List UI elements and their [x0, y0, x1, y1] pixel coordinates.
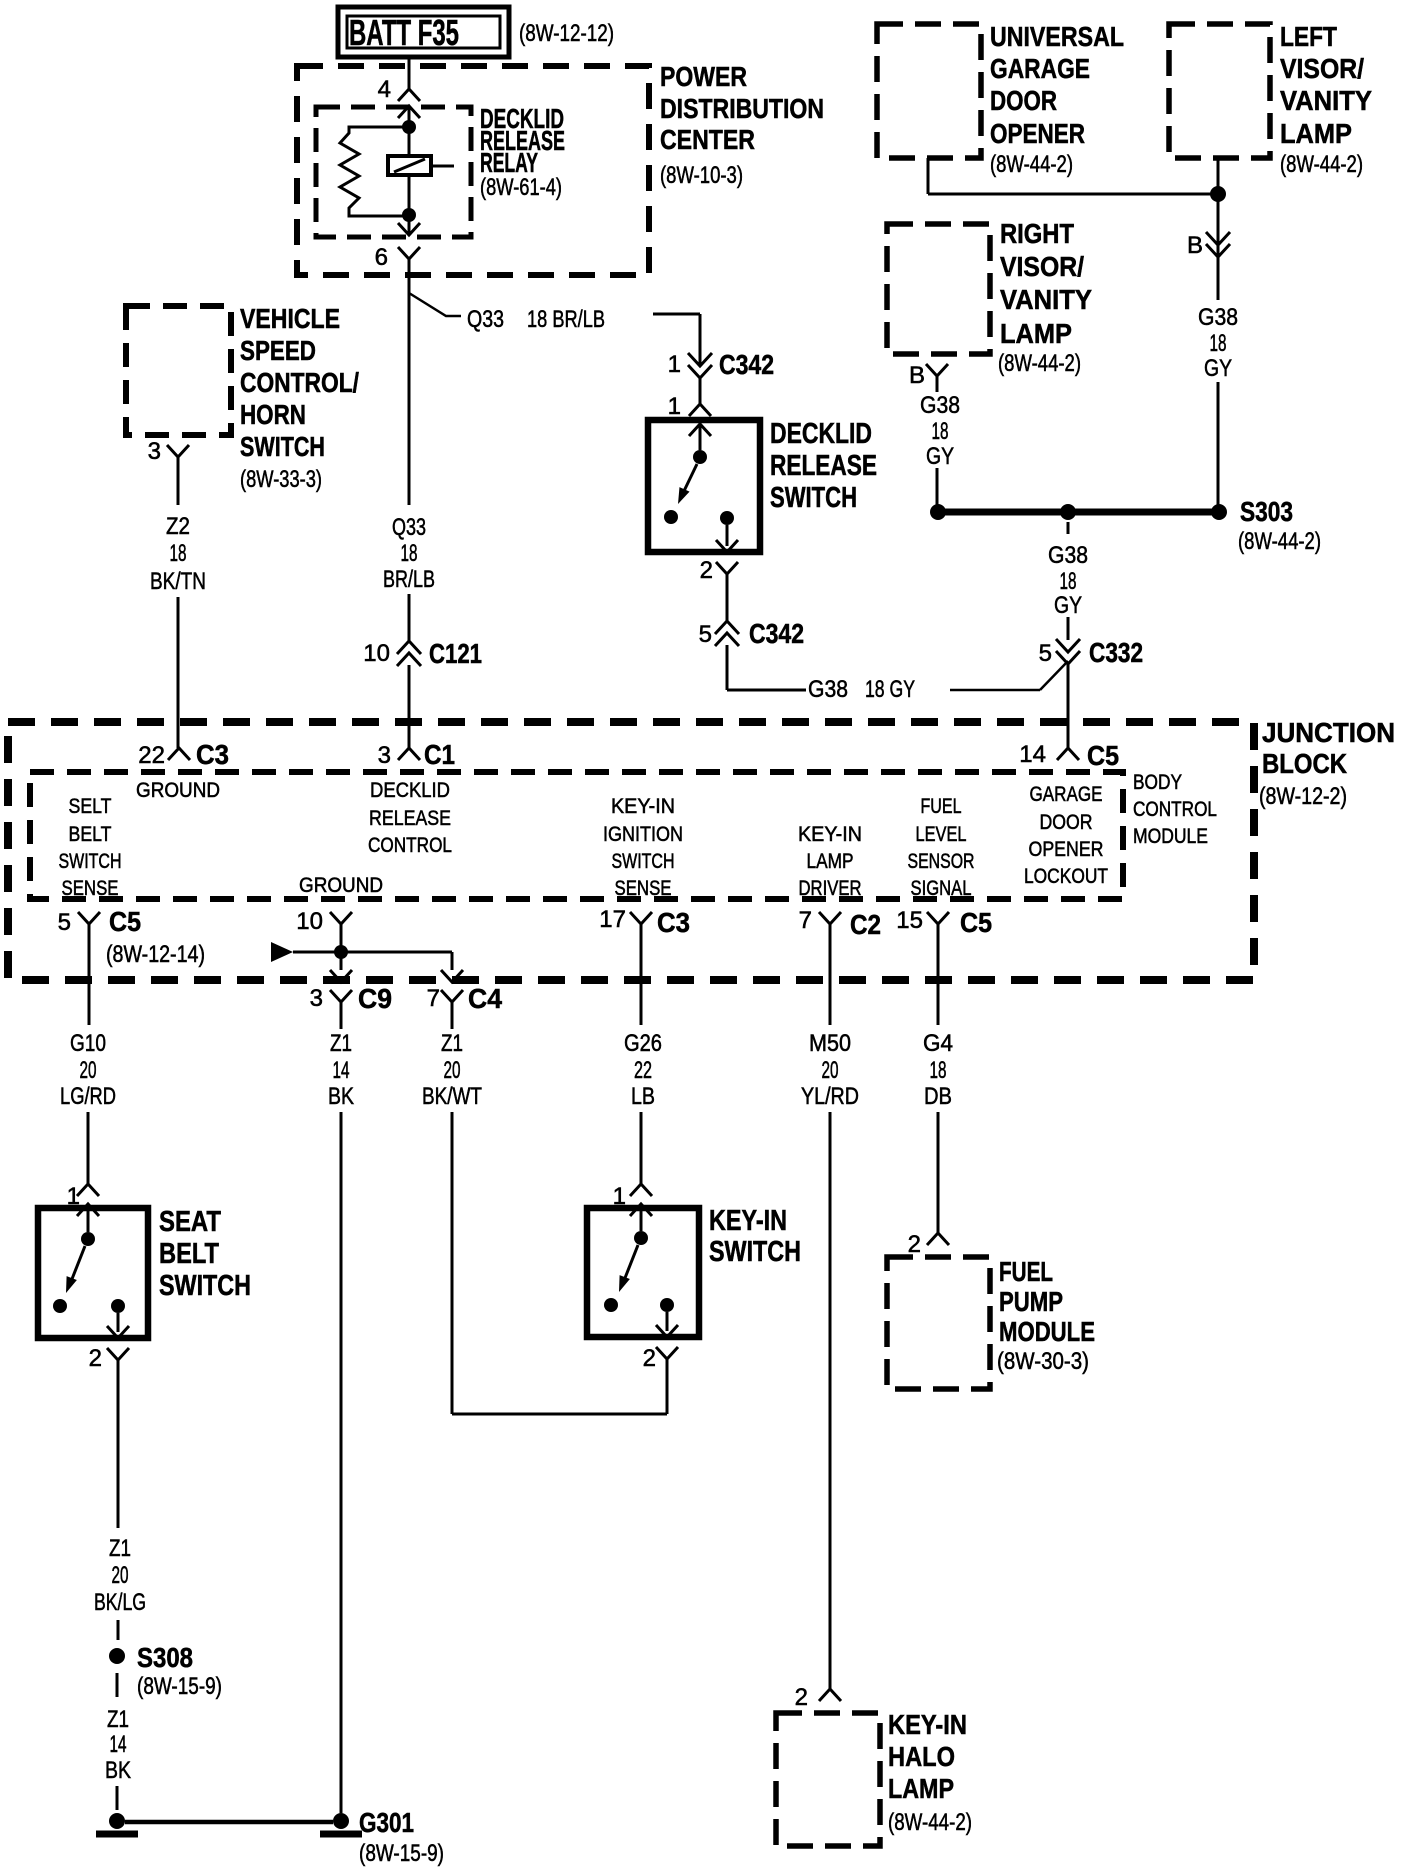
svg-text:C5: C5	[1087, 740, 1119, 771]
wire Q33 branch to C342	[653, 313, 700, 316]
svg-text:(8W-15-9): (8W-15-9)	[137, 1673, 222, 1700]
wire G10 to seat belt switch	[87, 1112, 90, 1184]
svg-text:BR/LB: BR/LB	[383, 566, 435, 593]
wire decklid pin 2 to C342-5	[726, 574, 729, 621]
wire G38 label to C332	[950, 689, 1040, 692]
wire Z2 to junction block pin 22	[177, 457, 180, 505]
svg-text:(8W-15-9): (8W-15-9)	[359, 1840, 444, 1867]
svg-text:VANITY: VANITY	[1000, 284, 1092, 315]
svg-text:SENSE: SENSE	[615, 877, 672, 900]
wire splice to C9	[340, 952, 343, 970]
svg-text:LAMP: LAMP	[888, 1773, 954, 1804]
svg-text:G10: G10	[70, 1030, 106, 1057]
svg-text:5: 5	[699, 621, 712, 648]
svg-text:C3: C3	[657, 907, 690, 938]
pin 3 connector vehicle speed control	[167, 445, 189, 457]
wire pin 10 to ground splice	[340, 924, 343, 948]
svg-text:(8W-30-3): (8W-30-3)	[997, 1348, 1089, 1375]
svg-text:MODULE: MODULE	[999, 1316, 1095, 1347]
svg-text:20: 20	[444, 1057, 461, 1084]
svg-text:G38: G38	[808, 676, 848, 703]
node ground splice	[334, 945, 348, 959]
svg-text:(8W-44-2): (8W-44-2)	[998, 350, 1081, 377]
ground G301 right node	[333, 1813, 349, 1829]
wire Z1 20 BK/WT to key-in switch pin 2	[451, 1112, 454, 1414]
svg-text:LAMP: LAMP	[807, 850, 854, 873]
wire pin 15 down	[937, 924, 940, 1025]
svg-text:SENSE: SENSE	[62, 877, 119, 900]
svg-text:G4: G4	[923, 1030, 953, 1057]
svg-text:SENSOR: SENSOR	[908, 850, 975, 873]
power distribution center box	[297, 66, 649, 275]
svg-text:SEAT: SEAT	[159, 1206, 221, 1238]
node S303 left	[930, 504, 946, 520]
svg-text:C4: C4	[468, 983, 502, 1014]
svg-text:2: 2	[700, 557, 713, 584]
connector C121	[397, 641, 421, 654]
key-in switch box	[587, 1208, 699, 1337]
svg-text:LG/RD: LG/RD	[60, 1083, 116, 1110]
resistor (relay suppression)	[340, 127, 404, 216]
pin 3 connector C1	[398, 748, 420, 760]
svg-text:2: 2	[908, 1231, 921, 1258]
svg-text:3: 3	[148, 438, 161, 465]
wire G26 to key-in switch	[640, 1112, 643, 1184]
pin 17 connector C3	[630, 912, 652, 924]
svg-text:HALO: HALO	[888, 1741, 955, 1772]
svg-text:(8W-61-4): (8W-61-4)	[480, 174, 562, 201]
svg-text:VANITY: VANITY	[1280, 85, 1372, 116]
wire Z1 14 BK junction block to ground	[340, 1112, 343, 1813]
node relay bottom junction	[402, 208, 416, 222]
svg-text:DOOR: DOOR	[990, 85, 1057, 116]
wire ground bus	[125, 1820, 333, 1825]
svg-text:Z1: Z1	[441, 1030, 463, 1057]
wire C121 to junction block pin 3	[408, 665, 411, 748]
node relay top junction	[402, 120, 416, 134]
svg-text:JUNCTION: JUNCTION	[1262, 717, 1395, 748]
svg-text:2: 2	[795, 1684, 808, 1711]
svg-text:BK: BK	[105, 1757, 131, 1784]
svg-text:BATT F35: BATT F35	[349, 12, 459, 53]
svg-text:Q33: Q33	[392, 514, 426, 541]
wire pin 5 to G10 label	[88, 924, 91, 1025]
right visor/vanity lamp box	[887, 224, 990, 354]
wire C332 to junction block pin 14	[1067, 664, 1070, 748]
wire Z1 seat belt to S308	[117, 1360, 120, 1378]
svg-text:KEY-IN: KEY-IN	[709, 1205, 787, 1237]
svg-text:GARAGE: GARAGE	[1030, 783, 1103, 806]
splice S303 bus	[938, 509, 1219, 516]
node decklid switch common	[693, 450, 707, 464]
svg-text:C3: C3	[196, 739, 229, 770]
pin B connector right visor	[926, 364, 948, 376]
svg-text:22: 22	[634, 1057, 652, 1084]
wire C342 to switch pin 1	[699, 378, 702, 404]
svg-text:C121: C121	[429, 638, 482, 669]
node key-in switch common	[634, 1231, 648, 1245]
pin 7 connector C4	[441, 990, 463, 1002]
svg-text:C5: C5	[960, 907, 992, 938]
connector C342 pin 5	[715, 621, 739, 634]
decklid switch pin 1 entry	[689, 424, 711, 436]
svg-text:DECKLID: DECKLID	[370, 779, 450, 802]
pin 14 connector C5	[1057, 748, 1079, 760]
wire Q33 pin 6 to C121	[408, 259, 411, 505]
svg-text:C2: C2	[850, 909, 881, 940]
wire BATT F35 to relay pin 4	[408, 57, 411, 89]
wire C342-5 to G38 label	[726, 645, 729, 690]
pin 6 connector	[398, 247, 420, 259]
svg-text:DRIVER: DRIVER	[799, 877, 862, 900]
svg-text:3: 3	[310, 985, 323, 1012]
svg-text:5: 5	[1039, 640, 1052, 667]
svg-text:MODULE: MODULE	[1133, 825, 1208, 848]
fuse BATT F35 box	[338, 7, 509, 57]
pin 5 connector C5	[78, 912, 100, 924]
svg-text:SWITCH: SWITCH	[709, 1236, 801, 1268]
connector C342 pin 1	[688, 353, 712, 366]
svg-text:BELT: BELT	[69, 823, 112, 846]
svg-text:BK/WT: BK/WT	[422, 1083, 482, 1110]
svg-text:RIGHT: RIGHT	[1000, 218, 1074, 249]
svg-text:17: 17	[599, 906, 626, 933]
decklid release relay box	[316, 107, 471, 237]
svg-text:C9: C9	[358, 983, 392, 1014]
wire M50 to key-in halo lamp	[829, 1112, 832, 1689]
svg-text:G26: G26	[624, 1030, 662, 1057]
svg-text:G38: G38	[1048, 542, 1088, 569]
svg-text:1: 1	[668, 393, 681, 420]
wire coil to bottom dot	[408, 175, 411, 212]
svg-text:(8W-44-2): (8W-44-2)	[888, 1809, 972, 1836]
svg-text:10: 10	[296, 908, 323, 935]
wire S308 down	[116, 1673, 119, 1697]
svg-text:(8W-12-2): (8W-12-2)	[1259, 783, 1347, 810]
svg-text:1: 1	[668, 351, 681, 378]
svg-text:GY: GY	[1054, 592, 1082, 619]
svg-text:KEY-IN: KEY-IN	[611, 795, 675, 818]
svg-text:C5: C5	[109, 906, 141, 937]
connector C332	[1056, 639, 1080, 652]
svg-text:RELEASE: RELEASE	[770, 450, 877, 482]
left visor/vanity lamp box	[1169, 24, 1270, 158]
key-in switch arm	[625, 1245, 638, 1278]
pin 2 connector seat belt switch	[107, 1348, 129, 1360]
wire key-in pin 2 down	[666, 1359, 669, 1414]
svg-text:PUMP: PUMP	[999, 1286, 1063, 1317]
svg-text:Z1: Z1	[107, 1706, 129, 1733]
svg-text:CONTROL: CONTROL	[368, 834, 452, 857]
svg-text:18: 18	[170, 540, 187, 567]
svg-text:Z1: Z1	[330, 1030, 352, 1057]
svg-text:B: B	[909, 362, 925, 389]
svg-text:RELEASE: RELEASE	[369, 807, 451, 830]
svg-text:14: 14	[333, 1057, 350, 1084]
svg-text:CONTROL/: CONTROL/	[240, 367, 359, 398]
svg-text:2: 2	[643, 1345, 656, 1372]
wire S303 to C332	[1067, 522, 1070, 534]
leader line Q33 wire label	[409, 293, 461, 316]
svg-text:(8W-44-2): (8W-44-2)	[990, 151, 1073, 178]
pin 22 connector C3	[168, 748, 190, 760]
ground G301 left node	[109, 1813, 125, 1829]
key-in switch pin 1 entry	[630, 1204, 652, 1216]
pin 15 connector C5	[927, 912, 949, 924]
svg-text:7: 7	[799, 907, 812, 934]
svg-text:BODY: BODY	[1133, 771, 1182, 794]
pin 10 connector	[330, 912, 352, 924]
svg-text:C342: C342	[719, 349, 774, 380]
key-in switch pin 2 exit	[666, 1312, 669, 1331]
seat belt switch pin 2 exit	[117, 1313, 120, 1332]
svg-text:18: 18	[1060, 568, 1077, 595]
svg-text:CENTER: CENTER	[660, 124, 755, 155]
svg-text:(8W-44-2): (8W-44-2)	[1238, 528, 1321, 555]
pin 7 connector C2	[819, 912, 841, 924]
node key-in contact left	[604, 1298, 618, 1312]
wire ground splice horizontal	[293, 951, 452, 954]
svg-text:20: 20	[80, 1057, 97, 1084]
wire pin 17 down	[640, 924, 643, 1025]
svg-text:YL/RD: YL/RD	[801, 1083, 859, 1110]
splice S308	[109, 1648, 125, 1664]
node decklid switch contact right	[720, 511, 734, 525]
svg-text:20: 20	[822, 1057, 839, 1084]
svg-text:SWITCH: SWITCH	[770, 482, 857, 514]
node S303 right	[1211, 504, 1227, 520]
svg-text:VEHICLE: VEHICLE	[240, 303, 340, 334]
svg-text:4: 4	[378, 76, 391, 103]
svg-text:G301: G301	[359, 1807, 414, 1838]
leader line G38 18 GY	[1040, 661, 1068, 690]
svg-text:SWITCH: SWITCH	[59, 850, 122, 873]
svg-text:GARAGE: GARAGE	[990, 53, 1090, 84]
pin 1 connector seat belt switch	[77, 1184, 99, 1196]
svg-text:7: 7	[427, 985, 440, 1012]
pin 3 connector C9	[330, 990, 352, 1002]
svg-text:CONTROL: CONTROL	[1133, 798, 1217, 821]
wire left visor lamp down	[1217, 158, 1220, 300]
svg-text:KEY-IN: KEY-IN	[888, 1709, 967, 1740]
wire right visor to S303	[936, 468, 939, 508]
svg-text:DB: DB	[924, 1083, 952, 1110]
svg-text:GY: GY	[926, 443, 954, 470]
svg-text:18 BR/LB: 18 BR/LB	[527, 306, 605, 333]
svg-text:G38: G38	[1198, 304, 1238, 331]
decklid release switch box	[648, 420, 760, 552]
svg-text:S308: S308	[137, 1642, 193, 1673]
connector B left visor	[1206, 232, 1230, 245]
svg-text:14: 14	[110, 1731, 127, 1758]
svg-text:18: 18	[401, 540, 418, 567]
vehicle speed control/horn switch box	[126, 306, 231, 435]
svg-text:POWER: POWER	[660, 61, 747, 92]
wire to S308	[117, 1620, 120, 1640]
svg-text:S303: S303	[1240, 496, 1293, 527]
decklid switch pin 2 exit	[726, 525, 729, 546]
svg-text:FUEL: FUEL	[999, 1256, 1053, 1287]
svg-text:3: 3	[378, 742, 391, 769]
relay pin 6 exit connector	[408, 218, 411, 235]
svg-text:Q33: Q33	[467, 306, 504, 333]
svg-text:LAMP: LAMP	[1280, 118, 1352, 149]
svg-text:(8W-12-14): (8W-12-14)	[106, 941, 205, 968]
svg-text:FUEL: FUEL	[921, 795, 962, 818]
svg-text:DISTRIBUTION: DISTRIBUTION	[660, 93, 824, 124]
svg-text:SPEED: SPEED	[240, 335, 316, 366]
svg-text:LOCKOUT: LOCKOUT	[1024, 865, 1108, 888]
pin 2 connector key-in switch	[656, 1347, 678, 1359]
svg-text:(8W-10-3): (8W-10-3)	[660, 162, 743, 189]
node seat belt switch common	[81, 1232, 95, 1246]
svg-text:10: 10	[363, 640, 390, 667]
relay pin 4 entry connector	[398, 106, 420, 118]
wire to ground G301 left	[116, 1786, 119, 1810]
svg-text:Z1: Z1	[109, 1535, 131, 1562]
universal garage door opener box	[877, 24, 981, 158]
svg-text:B: B	[1187, 232, 1203, 259]
svg-text:(8W-12-12): (8W-12-12)	[519, 20, 614, 47]
svg-text:BELT: BELT	[159, 1238, 219, 1270]
fuel pump module box	[887, 1257, 990, 1389]
svg-text:KEY-IN: KEY-IN	[798, 823, 862, 846]
node S303 middle	[1060, 504, 1076, 520]
svg-text:OPENER: OPENER	[1029, 838, 1104, 861]
svg-text:DECKLID: DECKLID	[770, 418, 872, 450]
seat belt switch pin 1 entry	[77, 1204, 99, 1216]
svg-text:GROUND: GROUND	[299, 874, 383, 897]
wire G4 to fuel pump module	[937, 1112, 940, 1233]
svg-text:BK/LG: BK/LG	[94, 1589, 146, 1616]
svg-text:(8W-44-2): (8W-44-2)	[1280, 151, 1363, 178]
svg-text:LB: LB	[631, 1083, 655, 1110]
svg-text:LEFT: LEFT	[1280, 21, 1337, 52]
pin 1 connector decklid switch	[689, 404, 711, 416]
junction block box	[8, 722, 1254, 980]
pin 2 connector decklid switch	[716, 562, 738, 574]
wire left visor to S303	[1217, 382, 1220, 508]
svg-text:OPENER: OPENER	[990, 118, 1085, 149]
svg-text:18: 18	[1210, 330, 1227, 357]
svg-text:SELT: SELT	[69, 795, 112, 818]
svg-text:6: 6	[375, 244, 388, 271]
svg-text:18 GY: 18 GY	[865, 676, 915, 703]
node garage door opener / visor junction	[1210, 186, 1226, 202]
svg-text:SWITCH: SWITCH	[240, 431, 325, 462]
svg-text:18: 18	[932, 418, 949, 445]
wire garage door opener to node	[927, 158, 930, 194]
svg-text:BK/TN: BK/TN	[150, 568, 206, 595]
svg-text:22: 22	[138, 742, 165, 769]
svg-text:UNIVERSAL: UNIVERSAL	[990, 21, 1124, 52]
pin 2 connector halo lamp	[819, 1689, 841, 1701]
arrow ground feed	[271, 942, 293, 962]
svg-text:G38: G38	[920, 392, 960, 419]
svg-text:LAMP: LAMP	[1000, 318, 1072, 349]
svg-text:BK: BK	[328, 1083, 354, 1110]
wire splice to C4	[451, 952, 454, 970]
svg-text:VISOR/: VISOR/	[1000, 251, 1084, 282]
svg-text:15: 15	[896, 907, 923, 934]
pin 2 connector fuel pump module	[927, 1233, 949, 1245]
node seat belt contact left	[53, 1299, 67, 1313]
svg-text:14: 14	[1019, 741, 1046, 768]
svg-text:IGNITION: IGNITION	[603, 823, 683, 846]
svg-text:SWITCH: SWITCH	[612, 850, 675, 873]
pin 4 connector	[398, 89, 420, 101]
svg-text:C332: C332	[1089, 637, 1143, 668]
svg-text:GY: GY	[1204, 355, 1232, 382]
svg-text:HORN: HORN	[240, 399, 306, 430]
svg-text:BLOCK: BLOCK	[1262, 748, 1347, 779]
svg-text:5: 5	[58, 909, 71, 936]
pin 1 connector key-in switch	[630, 1184, 652, 1196]
svg-text:LEVEL: LEVEL	[916, 823, 967, 846]
svg-text:SIGNAL: SIGNAL	[911, 877, 972, 900]
svg-text:(8W-33-3): (8W-33-3)	[240, 466, 322, 493]
seat belt switch arm	[72, 1246, 85, 1279]
body control module box	[30, 772, 1123, 899]
svg-text:Z2: Z2	[166, 513, 190, 540]
svg-text:C342: C342	[749, 618, 804, 649]
svg-text:M50: M50	[809, 1030, 851, 1057]
svg-text:C1: C1	[424, 739, 455, 770]
svg-text:2: 2	[89, 1345, 102, 1372]
svg-text:GROUND: GROUND	[136, 779, 220, 802]
svg-text:18: 18	[930, 1057, 947, 1084]
svg-text:20: 20	[112, 1562, 129, 1589]
svg-text:SWITCH: SWITCH	[159, 1270, 251, 1302]
wire relay top dot to coil	[408, 130, 411, 156]
relay coil	[388, 156, 431, 175]
node key-in contact right	[660, 1298, 674, 1312]
key-in halo lamp box	[776, 1713, 880, 1846]
seat belt switch box	[38, 1208, 148, 1338]
decklid switch arm	[684, 464, 697, 491]
node seat belt contact right	[111, 1299, 125, 1313]
svg-text:VISOR/: VISOR/	[1280, 53, 1364, 84]
svg-text:DOOR: DOOR	[1040, 811, 1093, 834]
node decklid switch contact left	[664, 510, 678, 524]
wire pin 7 down	[829, 924, 832, 1025]
